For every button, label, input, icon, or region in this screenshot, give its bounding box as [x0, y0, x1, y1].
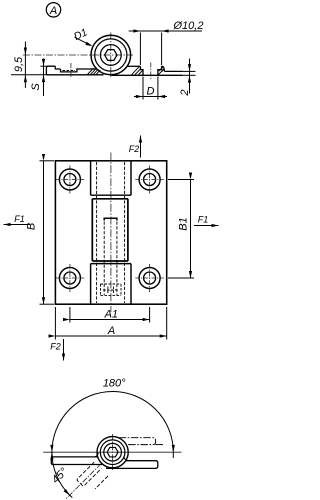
svg-text:Ø10,2: Ø10,2 [173, 20, 204, 32]
force arrow F1 (right) [194, 215, 219, 226]
hinge axis centerline [110, 153, 112, 313]
dimension B (left) [26, 161, 55, 304]
hidden detail bottom segment [101, 284, 122, 295]
dimension A (bottom) [55, 307, 166, 340]
arc arrowheads [50, 445, 53, 452]
left leaf fillet [95, 453, 99, 457]
svg-text:A1: A1 [104, 309, 118, 321]
svg-text:A: A [49, 5, 57, 17]
leader D1 [72, 26, 93, 46]
knuckle middle circle [95, 39, 127, 71]
hole bottom-right [135, 264, 164, 292]
svg-text:B1: B1 [177, 217, 189, 230]
hex socket [105, 50, 117, 61]
hole top-right [135, 166, 164, 194]
svg-text:A: A [107, 325, 115, 337]
knuckle inner circle [100, 45, 121, 66]
svg-text:D: D [147, 86, 155, 98]
force arrow F1 (left) [4, 214, 30, 225]
knuckle middle segment [92, 199, 128, 261]
right leaf (section) outline [112, 66, 183, 75]
force arrow F2 (top) [129, 136, 141, 158]
pivot outer circle [97, 437, 128, 468]
hidden slot in middle segment [104, 218, 117, 295]
hidden bore lines [96, 162, 98, 303]
svg-text:2: 2 [179, 89, 191, 96]
hatch at knuckle/left-leaf junction [88, 68, 101, 75]
svg-text:9,5: 9,5 [13, 56, 25, 72]
dimension B1 (right) [168, 180, 194, 279]
pivot hex socket [107, 447, 118, 457]
pivot circle 3 [104, 443, 122, 461]
view balloon A [46, 3, 60, 17]
right hole centerline [150, 63, 152, 80]
dimension 9,5 (left) [13, 42, 27, 89]
180 deg arc [52, 392, 173, 453]
svg-text:F1: F1 [14, 214, 25, 224]
hole top-left [56, 166, 85, 194]
left leaf outline [46, 66, 103, 75]
hatching in right leaf section [132, 67, 165, 76]
45 deg arc [52, 452, 70, 495]
knuckle horizontal centerline [23, 54, 133, 56]
dimension D (hole dia) [134, 77, 167, 100]
45 deg axis centerline [66, 464, 101, 499]
dimension 2 (right leaf thickness) [179, 59, 196, 97]
arc end tails [51, 452, 53, 460]
left leaf hidden hole dashes [63, 70, 76, 72]
right leaf fillet [124, 457, 128, 461]
svg-text:B: B [26, 223, 38, 230]
45 arc tail [70, 495, 73, 498]
dimension A1 (bottom) [70, 307, 150, 323]
left hole centerline [70, 63, 72, 78]
svg-text:F2: F2 [50, 341, 61, 351]
pivot horizontal centerline / extension line [43, 451, 181, 453]
45 arc arrowheads [50, 452, 53, 459]
knuckle vertical centerline [110, 33, 112, 79]
dashed leaf at 45 deg position [77, 462, 108, 489]
svg-text:180°: 180° [103, 378, 126, 390]
hole bottom-left [56, 264, 85, 292]
left leaf (open 180) [51, 457, 103, 465]
svg-text:S: S [30, 83, 42, 91]
dimension O10,2 [129, 20, 204, 65]
pivot vertical centerline [112, 434, 114, 470]
dimension S (left leaf thickness) [11, 59, 46, 97]
force arrow F2 (bottom) [50, 339, 63, 361]
knuckle bottom segment edges [91, 264, 131, 305]
svg-text:F2: F2 [129, 144, 140, 154]
knuckle outer circle [91, 35, 131, 75]
phantom leaf (closed position) [119, 438, 163, 445]
pivot circle 2 [100, 440, 125, 465]
knuckle top segment edges [91, 161, 131, 195]
svg-text:F1: F1 [198, 215, 209, 225]
body outline [55, 161, 166, 304]
right leaf (fixed) [106, 461, 158, 469]
